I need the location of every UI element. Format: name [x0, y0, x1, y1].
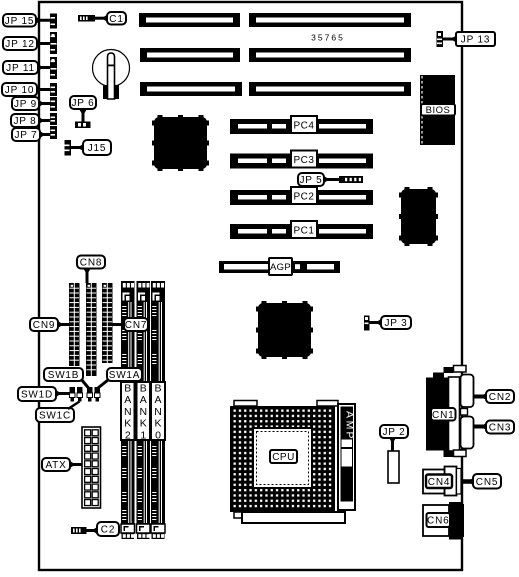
- label JP12: [3, 37, 37, 50]
- leader JP6: [79, 109, 87, 122]
- leader JP5: [323, 176, 340, 184]
- DIMM socket CN7 bank1: [137, 281, 151, 539]
- label CN9: [30, 318, 58, 331]
- svg-text:CPU: CPU: [272, 452, 295, 463]
- leader CN7: [112, 321, 125, 329]
- svg-text:35765: 35765: [311, 33, 345, 43]
- label CN4: [426, 475, 452, 489]
- svg-text:SW1D: SW1D: [21, 390, 53, 401]
- jumper JP12: [50, 32, 57, 54]
- svg-text:JP 9: JP 9: [14, 99, 37, 110]
- leader JP11: [37, 64, 50, 72]
- ISA slot bar row1 right: [249, 13, 411, 27]
- svg-text:A: A: [344, 411, 356, 418]
- jumper JP9: [50, 97, 57, 111]
- label CN1: [431, 408, 456, 421]
- jumper JP15: [50, 14, 57, 29]
- svg-text:B: B: [154, 383, 161, 395]
- leader CN9: [57, 321, 69, 329]
- svg-text:AGP: AGP: [270, 262, 291, 273]
- label CN5: [473, 474, 501, 489]
- svg-text:ATX: ATX: [45, 460, 66, 471]
- svg-text:C2: C2: [101, 525, 115, 536]
- ISA slot bar row1 left: [139, 13, 240, 27]
- leader JP3: [370, 319, 383, 327]
- pin header CN8-c: [102, 283, 113, 363]
- label CN2: [486, 390, 514, 403]
- label SW1A: [107, 368, 142, 381]
- label CPU: [270, 450, 297, 463]
- svg-text:PC4: PC4: [294, 121, 315, 132]
- svg-text:CN3: CN3: [489, 423, 511, 434]
- svg-text:B: B: [140, 383, 147, 395]
- svg-text:CN8: CN8: [80, 258, 102, 269]
- label AGP: [269, 258, 292, 275]
- leader JP12: [36, 40, 50, 48]
- jumper JP5: [339, 176, 363, 183]
- label CN7: [124, 318, 148, 331]
- leader SW1B: [81, 379, 89, 388]
- svg-text:K: K: [140, 418, 147, 430]
- svg-text:JP 13: JP 13: [461, 35, 490, 46]
- label JP7: [12, 128, 40, 141]
- leader JP13: [443, 35, 457, 43]
- svg-text:CN7: CN7: [125, 320, 147, 331]
- leader CN5: [462, 478, 474, 486]
- leader SW1C: [68, 402, 80, 410]
- svg-text:JP 15: JP 15: [5, 16, 34, 27]
- leader JP10: [36, 86, 50, 94]
- leader JP9: [38, 100, 50, 108]
- svg-text:JP 10: JP 10: [5, 85, 34, 96]
- label JP5: [298, 173, 324, 186]
- svg-text:N: N: [139, 406, 147, 418]
- capacitor C1 component: [78, 15, 95, 22]
- leader JP15: [35, 16, 50, 24]
- jumper JP13: [437, 31, 444, 47]
- jumper JP7: [50, 126, 57, 139]
- svg-text:PC1: PC1: [294, 226, 315, 237]
- svg-text:CN9: CN9: [33, 320, 55, 331]
- label SW1D: [18, 387, 56, 401]
- connector CN6: [423, 502, 464, 540]
- label CN8: [77, 256, 105, 269]
- connector CN1 bracket strip: [449, 377, 460, 451]
- DIMM socket CN7 bank2: [121, 281, 135, 539]
- svg-text:JP 3: JP 3: [384, 318, 407, 329]
- jumper JP10: [50, 83, 57, 96]
- svg-text:CN5: CN5: [476, 477, 498, 488]
- svg-text:B: B: [124, 383, 131, 395]
- PCI slot PC2: [230, 187, 373, 205]
- label JP6: [70, 96, 96, 109]
- svg-text:A: A: [140, 394, 147, 406]
- leader C2: [87, 527, 99, 535]
- connector CN2 (serial D-sub): [461, 375, 474, 408]
- label JP13: [456, 32, 495, 46]
- svg-text:C1: C1: [109, 14, 123, 25]
- label JP11: [3, 61, 38, 74]
- svg-text:SW1B: SW1B: [48, 370, 80, 381]
- svg-text:JP 8: JP 8: [13, 116, 36, 127]
- svg-text:PC2: PC2: [294, 192, 315, 203]
- chip U1 (QFP): [152, 115, 209, 171]
- AGP slot: [219, 261, 340, 273]
- chip U2: [399, 187, 438, 246]
- svg-text:SW1A: SW1A: [109, 370, 141, 381]
- ATX power connector: [82, 427, 101, 508]
- svg-text:N: N: [124, 406, 132, 418]
- svg-text:JP 11: JP 11: [6, 63, 35, 74]
- PCI slot PC3: [230, 151, 373, 169]
- svg-text:CN1: CN1: [432, 410, 454, 421]
- svg-text:JP 7: JP 7: [14, 130, 37, 141]
- label C2: [97, 522, 119, 536]
- svg-text:1: 1: [140, 429, 146, 441]
- svg-text:SW1C: SW1C: [39, 411, 71, 422]
- CPU bottom bar: [234, 512, 345, 523]
- label SW1B: [44, 368, 83, 381]
- svg-text:0: 0: [155, 429, 161, 441]
- svg-text:2: 2: [125, 429, 131, 441]
- capacitor C2 component: [71, 527, 87, 534]
- label JP2: [380, 425, 408, 438]
- svg-text:A: A: [124, 394, 131, 406]
- svg-text:M: M: [344, 421, 356, 430]
- label CN3: [486, 421, 514, 434]
- pin header CN9-a: [69, 283, 80, 366]
- label J15: [83, 140, 111, 155]
- svg-text:JP 5: JP 5: [299, 175, 322, 186]
- jumper JP3: [364, 316, 370, 331]
- CN1 bottom tab: [444, 450, 467, 457]
- leader J15: [71, 144, 84, 152]
- label CN6: [427, 513, 451, 527]
- label JP9: [12, 97, 39, 110]
- ISA slot bar row3 left: [140, 82, 242, 96]
- label ATX: [42, 458, 70, 471]
- ISA slot bar row3 right: [249, 82, 411, 96]
- svg-text:K: K: [124, 418, 131, 430]
- leader JP8: [38, 117, 50, 125]
- jumper JP8: [50, 113, 57, 125]
- capacitor JP2 component: [388, 451, 399, 483]
- connector CN3 (serial D-sub): [461, 417, 474, 449]
- svg-text:CN4: CN4: [428, 477, 450, 488]
- label JP15: [3, 14, 36, 27]
- leader CN8: [83, 268, 91, 283]
- connector AMP: [338, 404, 356, 510]
- label JP8: [11, 114, 39, 127]
- leader ATX: [69, 461, 82, 469]
- svg-text:CN6: CN6: [427, 516, 449, 527]
- svg-text:JP 2: JP 2: [382, 427, 405, 438]
- leader C1: [95, 14, 108, 22]
- leader SW1A: [98, 380, 108, 388]
- svg-text:JP 12: JP 12: [5, 39, 34, 50]
- ISA slot bar row2 right: [249, 48, 411, 62]
- leader SW1D: [55, 390, 70, 398]
- PCI slot PC1: [230, 221, 373, 239]
- jumper JP6: [75, 122, 91, 129]
- jumper J15: [65, 140, 72, 156]
- jumper JP11: [50, 57, 57, 79]
- pin header CN8-b: [86, 283, 97, 376]
- label JP10: [2, 83, 37, 96]
- leader CN3: [474, 423, 488, 431]
- leader JP7: [39, 131, 50, 139]
- DIMM socket CN7 bank0: [151, 281, 165, 539]
- svg-text:CN2: CN2: [489, 392, 511, 403]
- svg-text:N: N: [154, 406, 162, 418]
- svg-text:A: A: [154, 394, 161, 406]
- PCI slot PC4: [230, 116, 373, 134]
- CN2/CN3 spacer: [461, 409, 468, 416]
- connector CN4 (PS/2): [423, 467, 461, 496]
- label SW1C: [36, 408, 74, 422]
- leader JP2: [389, 437, 397, 451]
- CPU top tabs: [234, 401, 338, 407]
- svg-text:J15: J15: [88, 143, 107, 154]
- svg-text:JP 6: JP 6: [71, 98, 94, 109]
- chip U3: [256, 301, 313, 359]
- battery B1: [93, 50, 130, 100]
- CN1 top tab: [444, 366, 467, 374]
- svg-text:P: P: [344, 431, 356, 438]
- BIOS chip U-BIOS: [420, 75, 455, 145]
- svg-text:BIOS: BIOS: [426, 105, 451, 116]
- jumpers SW1 block: [70, 387, 101, 402]
- leader CN2: [474, 393, 488, 401]
- svg-text:K: K: [154, 418, 161, 430]
- connector CN1 black body: [426, 373, 449, 451]
- svg-text:PC3: PC3: [294, 155, 315, 166]
- ISA slot bar row2 left: [140, 48, 240, 62]
- label BIOS: [421, 104, 455, 116]
- label JP3: [381, 316, 411, 329]
- label C1: [107, 12, 126, 25]
